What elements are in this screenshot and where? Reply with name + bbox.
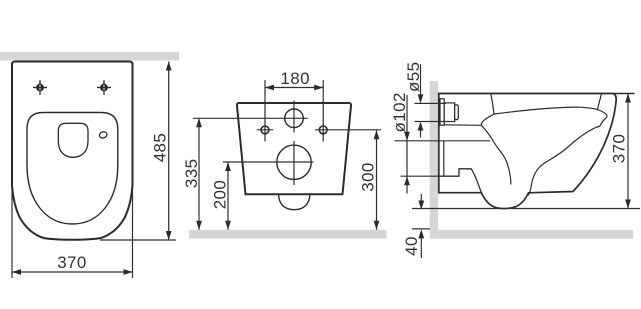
seat front edge [598,94,602,110]
drain circle (rear view) [277,145,311,179]
dim o55 extension top [415,102,447,104]
dim 370 arrow up (side view) [625,94,631,103]
top edge line / dim 370 extension [438,93,635,95]
bowl back upper curve [481,114,494,125]
flush button (top view) [99,131,108,139]
svg-text:370: 370 [57,253,87,272]
dim 485 extension line bottom [100,239,176,241]
left fixing hole horizontal tick [257,129,273,131]
right fixing hole vertical line / dim 180 extension [322,80,324,142]
inlet spigot plate (side view) [440,99,444,125]
dim 335 arrow down [196,221,202,230]
dim 180 arrow left [265,85,274,91]
floor bar (rear view) [189,230,387,239]
water inlet circle (rear view) [285,109,304,128]
dim o55 extension bottom [415,121,447,123]
svg-text:300: 300 [358,162,377,192]
drain circle vertical centerline [293,141,295,185]
svg-text:200: 200 [211,180,230,210]
floor bar (side view) [438,230,633,239]
dim 335 arrow up [196,118,202,127]
dim 370 extension line right [132,182,134,278]
dim 300 arrow up [374,130,380,139]
svg-text:180: 180 [280,69,310,88]
toilet body outline (rear view trapezoid) [237,103,351,194]
dim 200 arrow up [225,162,231,171]
inlet circle vertical centerline [293,101,295,133]
toilet profile outline (side view) [439,94,616,209]
bottom extension line (toilet underside) [412,208,640,210]
dim o102 extension bottom [401,175,439,177]
seat rim (top view) [27,113,118,225]
dim 200 line [227,162,229,230]
drain cover step outline [439,169,482,193]
dim o102 arrow down [404,132,410,141]
dim 300 arrow down [374,221,380,230]
dim 180 line [265,87,323,89]
left fixing hole vertical line / dim 180 extension [264,80,266,142]
dim o55 lower arrow [420,129,422,138]
right fixing hole (rear view) [319,126,327,134]
left fixing hole (rear view) [261,126,269,134]
svg-text:ø102: ø102 [390,92,409,132]
seat underside curve with nose beak [528,110,607,196]
seat back split line [491,94,494,115]
outlet bump (rear view) [279,194,310,209]
dim o102 arrow up [404,176,410,185]
dim 370 arrow left [12,269,21,275]
svg-text:40: 40 [402,236,421,256]
drain pipe back edge [443,141,445,176]
drain circle horizontal centerline / dim 200 extension [223,161,314,163]
water surface (top view) [58,123,88,157]
dim 180 arrow right [314,85,323,91]
dim o55 upper arrow [420,64,422,96]
dim 300 line [376,130,378,230]
svg-text:370: 370 [610,134,629,164]
dim 370 arrow right [124,269,133,275]
dim 40 upper arrow [420,194,422,201]
dim 370 arrow down (side view) [625,200,631,209]
dim o102 extension top [395,140,491,142]
dim 485 arrow down [166,231,172,240]
svg-text:335: 335 [182,159,201,189]
mounting hole mark right [97,80,111,94]
right fixing hole horizontal line / dim 300 extension [315,129,381,131]
inlet spigot body (side view) [444,103,455,122]
dim 485 line [168,62,170,241]
dim 200 arrow down [225,221,231,230]
svg-text:485: 485 [151,133,170,163]
mounting hole mark left [33,80,47,94]
inlet spigot tip (side view) [455,105,459,120]
dim 335 line [198,118,200,230]
svg-text:ø55: ø55 [404,62,423,93]
wall bar (top view) [0,52,179,60]
dim o102 line [406,95,408,194]
wall bar (side view) [430,81,438,239]
dim 370 line [12,271,133,273]
dim 370 line (side view) [627,94,629,209]
rim top line to nose junction [494,107,598,114]
trap inner curve [481,125,511,184]
inlet circle horizontal centerline / dim 335 extension [193,117,308,119]
dim 370 extension line left [11,182,13,278]
dim 40 lower arrow [420,237,422,258]
dim 485 arrow up [166,62,172,71]
toilet body outline (top view) [12,62,133,240]
shelf line under spigot [445,124,482,127]
dim 40 floor tick [412,228,430,230]
